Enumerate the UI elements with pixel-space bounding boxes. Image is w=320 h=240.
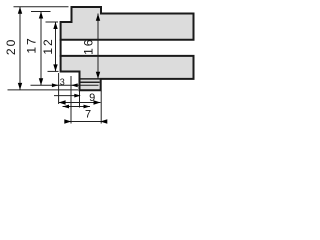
svg-text:7: 7 <box>85 108 91 120</box>
svg-text:12: 12 <box>41 37 55 54</box>
svg-text:9: 9 <box>89 92 95 104</box>
svg-text:3: 3 <box>60 77 65 87</box>
svg-text:16: 16 <box>82 38 96 55</box>
svg-text:20: 20 <box>4 38 18 55</box>
svg-text:17: 17 <box>24 36 38 53</box>
